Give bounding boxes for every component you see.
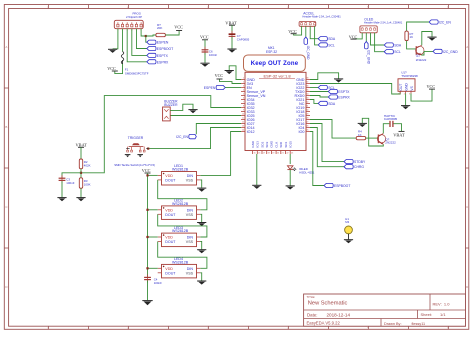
svg-text:Q3: Q3 (416, 54, 420, 58)
wire buzzer pin1 to ground (170, 104, 193, 110)
svg-text:ESPTX: ESPTX (157, 54, 169, 58)
svg-text:OUT: OUT (399, 84, 403, 91)
svg-text:IO13: IO13 (256, 141, 260, 148)
junction (LED1 VDD) (146, 174, 148, 176)
svg-text:DIN: DIN (187, 174, 194, 178)
wire Q? emitter to ground (362, 118, 383, 146)
svg-text:1K: 1K (358, 133, 362, 137)
VCC (fuse) (107, 66, 118, 71)
ground (LED1) (197, 188, 206, 192)
svg-text:4: 4 (243, 90, 244, 92)
svg-text:18: 18 (268, 152, 270, 154)
svg-text:VCC: VCC (288, 29, 297, 34)
svg-text:VBAT: VBAT (393, 132, 405, 137)
wire ESP IO12 to LED1 DIN (200, 132, 241, 176)
svg-text:VCC: VCC (349, 35, 358, 40)
net flag ESPRX (PROG) (147, 60, 169, 65)
wire LED3 VSS to ground (200, 242, 201, 250)
svg-text:TITLE:: TITLE: (307, 295, 316, 299)
svg-text:5: 5 (243, 94, 244, 96)
net flag ESPTX (PROG) (147, 53, 169, 58)
svg-text:VDD: VDD (165, 174, 173, 178)
svg-text:SCL: SCL (328, 43, 335, 47)
svg-text:B: B (466, 125, 468, 129)
svg-text:1: 1 (398, 93, 399, 95)
ground (R3) (76, 198, 85, 202)
VCC (C6 decoupling) (200, 35, 209, 40)
LED LED2 WS2812B (158, 199, 201, 220)
ground (C6) (200, 63, 209, 67)
wire ACCEL pin1 to VCC (294, 26, 302, 35)
capacitor HAPTIC CAP0805 (384, 114, 398, 127)
VCC (ACCEL) (288, 29, 297, 34)
ground (LED rail) (142, 301, 152, 306)
svg-text:flessy11: flessy11 (412, 322, 426, 326)
wire IRLED to ground (289, 170, 291, 186)
wire ESP RXD0 to ESPRX flag (310, 96, 328, 98)
svg-text:SDA: SDA (328, 102, 336, 106)
svg-text:2N2222: 2N2222 (385, 141, 396, 145)
svg-text:VCC: VCC (427, 84, 436, 89)
svg-text:9: 9 (243, 110, 244, 112)
wire LED4 VSS to ground (200, 273, 201, 281)
svg-text:2.54pitch 6P: 2.54pitch 6P (126, 15, 142, 19)
wire ESP GND to ground (229, 66, 241, 80)
svg-text:36: 36 (306, 86, 308, 88)
svg-text:100nF: 100nF (209, 53, 217, 57)
wire LED2 VSS to ground (200, 214, 201, 222)
svg-text:ESP-32 ver:1.8: ESP-32 ver:1.8 (263, 73, 291, 78)
svg-text:CAP0805: CAP0805 (237, 37, 250, 41)
wire H1 to ground (348, 234, 350, 240)
ground (PROG pin1) (108, 49, 117, 53)
junction (EN net) (145, 35, 147, 37)
svg-text:ESPBOOT: ESPBOOT (157, 47, 173, 51)
svg-text:Header-Male-2.54_1x4_C50481: Header-Male-2.54_1x4_C50481 (364, 21, 403, 25)
ground (LED4) (197, 281, 206, 285)
svg-text:ESPEN: ESPEN (157, 41, 169, 45)
net flag CHRG (344, 165, 364, 170)
svg-text:DOUT: DOUT (165, 271, 176, 275)
svg-text:SD0: SD0 (279, 141, 283, 147)
svg-text:33: 33 (306, 98, 308, 100)
wire Q? collector to haptic cap (383, 124, 389, 134)
wire ESP bottom GND to ground (256, 154, 258, 185)
svg-text:VCC: VCC (174, 25, 183, 30)
svg-text:TSOP38238: TSOP38238 (401, 74, 418, 78)
svg-text:16: 16 (258, 152, 260, 154)
wire ESP 3V3 to VCC (220, 79, 242, 83)
capacitor C3 100nF (59, 175, 75, 185)
wire OLED pin1 to VCC (354, 33, 363, 39)
resistor R3 100K (79, 178, 90, 189)
svg-text:REV: 1.0: REV: 1.0 (433, 302, 451, 307)
wire fuse F1 to VCC (115, 64, 123, 74)
wire buzzer to ESP IO25 (170, 115, 241, 117)
svg-text:Sheet:: Sheet: (421, 312, 433, 317)
wire ESPEN flag to EN pin (225, 87, 241, 89)
ground (U1) (401, 106, 410, 110)
svg-text:22: 22 (286, 152, 288, 154)
net flag ESPRX (ESP) (328, 95, 350, 100)
wire PROG pin5 to ESPBOOT (136, 29, 146, 49)
wire ACCEL pin3 to SDA flag (310, 26, 318, 38)
svg-text:VBAT: VBAT (76, 143, 88, 148)
net flag SDA (OLED) (384, 43, 402, 48)
module MK1 ESP-32 (241, 46, 310, 154)
svg-text:A: A (466, 45, 468, 49)
svg-text:Keep OUT Zone: Keep OUT Zone (251, 61, 299, 67)
title block (304, 294, 466, 326)
svg-text:3: 3 (409, 93, 410, 95)
net flag ESPTX (ESP) (328, 89, 350, 94)
connector ACCEL Header-Male-2.54_1x4_C50481 (299, 11, 341, 26)
net flag I2C_GND (ACCEL) (304, 37, 310, 60)
svg-text:VDD: VDD (165, 208, 173, 212)
svg-text:VSS: VSS (186, 240, 194, 244)
ground (ESP right GND) (334, 79, 343, 83)
svg-text:SD3: SD3 (265, 141, 269, 147)
net flag I2C_GND (Q3) (433, 49, 458, 54)
svg-text:New Schematic: New Schematic (308, 300, 348, 306)
svg-text:DIN: DIN (187, 236, 194, 240)
net flag ESPBOOT (PROG) (147, 46, 173, 51)
svg-text:GND: GND (404, 83, 408, 91)
wire ACCEL pin4 to SCL flag (315, 26, 319, 45)
svg-text:31: 31 (306, 106, 308, 108)
svg-text:2: 2 (404, 93, 405, 95)
IC U1? TSOP38238 (398, 71, 418, 96)
net flag SDA (ESP) (318, 101, 336, 106)
svg-text:ESPTX: ESPTX (338, 90, 350, 94)
wire ACCEL pin2 to I2C_GND flag (305, 26, 307, 37)
wire Q3 emitter to I2C_GND flag (421, 51, 433, 55)
svg-text:32: 32 (306, 102, 308, 104)
wire R7 to VCC (165, 31, 179, 35)
ground (trigger left) (125, 155, 131, 158)
ground (ESP bottom) (252, 185, 261, 189)
wire R6 to Q3 base (407, 41, 417, 49)
svg-text:VCC: VCC (142, 168, 151, 173)
svg-text:ESPRX: ESPRX (157, 60, 169, 64)
net flag STDBY (344, 160, 366, 165)
wire ESP IO23 to IR receiver OUT (310, 84, 400, 95)
svg-text:VSS: VSS (186, 213, 194, 217)
svg-text:I2C_EN: I2C_EN (439, 21, 451, 25)
connector PROG 2.54pitch 6P (114, 12, 143, 32)
svg-text:25: 25 (306, 130, 308, 132)
net flag I2C_GND (OLED) (365, 42, 371, 65)
svg-text:Drawn By:: Drawn By: (384, 322, 402, 326)
wire ESP TXD0 to ESPTX flag (310, 91, 328, 93)
junction (LED3 VDD) (146, 236, 148, 238)
svg-text:SMD Tactile Switch(4.2*6.2*3.5: SMD Tactile Switch(4.2*6.2*3.5) (114, 163, 155, 167)
svg-text:CLK: CLK (274, 142, 278, 148)
transistor Q3 2N2222 (416, 45, 427, 62)
net flag I2C_EN (top right) (429, 20, 451, 25)
svg-text:SCL: SCL (394, 50, 401, 54)
svg-text:VSS: VSS (186, 271, 194, 275)
svg-text:CMD: CMD (270, 140, 274, 148)
wire C4 to ground (147, 281, 149, 301)
svg-text:WS2812B: WS2812B (172, 261, 189, 265)
wire OLED pin4 to SCL flag (375, 33, 385, 52)
wire R3 to ground (80, 188, 82, 197)
svg-text:A: A (5, 45, 7, 49)
wire ESP IO4 to CHRG flag (310, 128, 344, 167)
capacitor C7 CAP0805 (229, 31, 250, 42)
svg-text:28: 28 (306, 118, 308, 120)
svg-text:12: 12 (242, 122, 244, 124)
mounting hole H1 M3 (345, 217, 353, 234)
net flag SCL (ACCEL) (318, 43, 335, 48)
wire trigger to ESP IO14 (148, 128, 241, 149)
wire LED3 DOUT to LED4 DIN (158, 242, 207, 269)
wire LED1 DOUT to LED2 DIN (158, 180, 207, 210)
wire junction to C3 (62, 173, 81, 178)
svg-text:I2C_GND: I2C_GND (443, 50, 458, 54)
svg-text:SDA: SDA (394, 44, 402, 48)
svg-text:27: 27 (306, 122, 308, 124)
svg-text:13: 13 (242, 126, 244, 128)
wire C7 to ground (231, 37, 233, 49)
svg-text:BUZZER: BUZZER (164, 103, 178, 107)
net flag ESPBOOT (ESP) (324, 183, 350, 188)
svg-text:ESPBOOT: ESPBOOT (334, 184, 350, 188)
svg-text:VSS: VSS (186, 179, 194, 183)
wire ESP IO17 to resistor R4 (310, 120, 356, 139)
svg-text:37: 37 (306, 82, 308, 84)
svg-text:19: 19 (272, 152, 274, 154)
svg-text:DIN: DIN (187, 267, 194, 271)
wire VCC rail to LED4 VDD (148, 267, 158, 269)
svg-text:EasyEDA V5.9.22: EasyEDA V5.9.22 (307, 321, 341, 326)
wire C3 to ground (61, 181, 63, 197)
svg-text:7: 7 (243, 102, 244, 104)
svg-text:100nF: 100nF (66, 181, 74, 185)
svg-text:WS2812B: WS2812B (172, 202, 189, 206)
svg-text:VDD: VDD (165, 236, 173, 240)
wire OLED pin2 to I2C_GND flag (365, 33, 367, 42)
svg-text:ESP-32: ESP-32 (266, 50, 277, 54)
svg-text:DOUT: DOUT (165, 179, 176, 183)
net flag SDA (ACCEL) (318, 37, 336, 42)
LED IRLED HSDL-4251 (287, 166, 314, 175)
svg-text:VCC: VCC (215, 73, 224, 78)
buzzer BUZZER (163, 100, 179, 121)
svg-text:WS2812B: WS2812B (172, 229, 189, 233)
svg-text:SDA: SDA (328, 37, 336, 41)
junction (LED2 VDD) (146, 209, 148, 211)
wire ESP IO15 to IRLED (289, 154, 291, 164)
svg-text:IO12: IO12 (247, 130, 255, 134)
svg-text:10: 10 (242, 114, 244, 116)
svg-text:100nF: 100nF (154, 281, 162, 285)
connector OLED Header-Male-2.54_1x4_C50481 (360, 17, 403, 33)
resistor R6 1K (405, 31, 414, 40)
svg-text:1: 1 (243, 78, 244, 80)
svg-text:Date:: Date: (307, 312, 318, 317)
svg-text:20: 20 (277, 152, 279, 154)
VBAT (haptic) (393, 131, 405, 137)
net flag I2C_EN (near ESP) (176, 134, 196, 139)
wire R4 to Q? base (366, 137, 378, 139)
fuse F1 SMD0603PC75TF (121, 52, 148, 76)
wire PROG pin4 to ESPTX (132, 29, 147, 56)
net flag ESPEN (PROG) (147, 40, 169, 45)
svg-text:SMD0603PC75TF: SMD0603PC75TF (125, 72, 149, 76)
svg-text:14: 14 (242, 130, 244, 132)
svg-text:VCC: VCC (107, 66, 116, 71)
wire U1 GND to ground (405, 94, 407, 106)
wire VCC rail to LED1 VDD (148, 174, 158, 176)
net flag SCL (ESP) (318, 85, 335, 90)
VCC (LED rail) (142, 168, 151, 173)
ground (Q? emitter) (358, 123, 367, 127)
svg-text:SD2: SD2 (260, 141, 264, 147)
VCC (OLED) (349, 35, 358, 40)
junction (trigger) (147, 148, 149, 150)
wire ESP IO21 to SDA flag (310, 100, 318, 104)
wire VCC rail to LED2 VDD (148, 209, 158, 211)
wire VCC rail (LED chain) (147, 173, 149, 277)
svg-text:2: 2 (243, 82, 244, 84)
wire ESP IO0 to ESPBOOT flag (310, 132, 324, 186)
svg-text:IO15: IO15 (289, 141, 293, 148)
net flag ESPEN (ESP EN pin) (204, 85, 226, 90)
junction (divider) (80, 172, 82, 174)
wire ESP IO22 to SCL flag (310, 87, 318, 89)
svg-text:CAP0805: CAP0805 (384, 117, 398, 121)
capacitor C6 100nF (202, 47, 218, 57)
LED LED3 WS2812B (158, 226, 201, 247)
svg-text:2N2222: 2N2222 (416, 58, 427, 62)
VCC (U1) (427, 84, 436, 89)
ground (C3) (57, 198, 66, 202)
wire junction to resistor R7 (146, 35, 156, 36)
svg-text:IO0: IO0 (298, 130, 304, 134)
svg-text:DIN: DIN (187, 208, 194, 212)
wire Q3 collector to ground (422, 32, 432, 46)
ground (H1) (344, 240, 353, 244)
wire I2C_EN flag to resistor R6 (407, 22, 429, 31)
net flag SCL (OLED) (384, 50, 401, 55)
svg-text:15: 15 (253, 152, 255, 154)
resistor R2 402K (79, 159, 90, 169)
resistor R7 20K (156, 23, 166, 37)
svg-text:30: 30 (306, 110, 308, 112)
VCC (R7 pullup) (174, 25, 183, 31)
ground (ESP left GND) (225, 71, 234, 75)
ground (C7) (227, 49, 236, 53)
wire VCC to C6 (204, 40, 206, 50)
wire PROG pin1 to ground (113, 29, 118, 49)
VBAT (divider) (76, 143, 88, 148)
ground (trigger right) (137, 155, 143, 158)
wire ESP right GND to ground (310, 73, 339, 80)
wire battery divider to ESP IO32 (81, 96, 241, 173)
wire LED2 DOUT to LED3 DIN (158, 214, 207, 237)
VCC (ESP 3V3) (215, 73, 224, 79)
svg-text:20K: 20K (157, 26, 162, 30)
svg-text:SD1: SD1 (284, 141, 288, 147)
svg-text:DOUT: DOUT (165, 240, 176, 244)
transistor Q? 2N2222 (haptic) (377, 133, 396, 144)
svg-text:26: 26 (306, 126, 308, 128)
svg-text:35: 35 (306, 90, 308, 92)
ground (LED2) (197, 223, 206, 227)
wire U1 VS to VCC (411, 89, 432, 101)
svg-text:ESPEN: ESPEN (204, 86, 216, 90)
svg-text:STDBY: STDBY (354, 160, 366, 164)
svg-text:VDD: VDD (165, 267, 173, 271)
svg-text:I2C_GND: I2C_GND (306, 46, 310, 61)
svg-text:21: 21 (282, 152, 284, 154)
VBAT (input cap) (225, 21, 237, 26)
wire PROG pin3 to ESPRX (127, 29, 147, 62)
wire VBAT to C7 (231, 25, 233, 33)
svg-text:ESPRX: ESPRX (338, 96, 350, 100)
ground (buzzer) (188, 110, 197, 114)
wire R2 to junction (80, 169, 82, 178)
wire OLED pin3 to SDA flag (371, 33, 385, 45)
wire LED1 VSS to ground (200, 180, 201, 188)
svg-text:TRIGGER: TRIGGER (128, 136, 144, 140)
svg-text:34: 34 (306, 94, 308, 96)
wire ESP IO16 to STDBY flag (310, 124, 344, 162)
wire PROG pin6 to node EN / junction (141, 29, 147, 43)
svg-text:I2C_EN: I2C_EN (176, 135, 188, 139)
svg-text:11: 11 (242, 118, 244, 120)
svg-text:1K: 1K (410, 35, 414, 39)
svg-text:VCC: VCC (200, 35, 209, 40)
svg-text:CHRG: CHRG (354, 165, 364, 169)
svg-text:29: 29 (306, 114, 308, 116)
svg-text:GND: GND (251, 140, 255, 148)
svg-text:402K: 402K (84, 164, 91, 168)
wire VBAT to R2 (80, 147, 82, 159)
svg-text:100K: 100K (84, 183, 91, 187)
switch TRIGGER SMD Tactile Switch(4.2*6.2*3.5) (114, 136, 155, 167)
svg-text:6: 6 (243, 98, 244, 100)
capacitor C4 100nF (144, 274, 162, 285)
svg-text:M3: M3 (345, 220, 349, 224)
svg-text:2018-12-14: 2018-12-14 (327, 312, 351, 317)
svg-text:8: 8 (243, 106, 244, 108)
wire I2C_EN flag to ESP IO27 (196, 124, 241, 135)
wire haptic cap to VBAT (394, 124, 402, 132)
ground (IRLED) (286, 186, 295, 190)
svg-text:1/1: 1/1 (440, 312, 446, 317)
svg-text:DOUT: DOUT (165, 213, 176, 217)
junction (LED4 VDD) (146, 267, 148, 269)
LED LED1 WS2812B (158, 164, 201, 185)
svg-text:HSDL-4251: HSDL-4251 (299, 171, 314, 175)
svg-text:3: 3 (243, 86, 244, 88)
resistor R4 1K (356, 130, 366, 140)
ground (Q3 collector) (427, 37, 436, 41)
svg-text:Header-Male-2.54_1x4_C50481: Header-Male-2.54_1x4_C50481 (302, 15, 341, 19)
svg-text:17: 17 (263, 152, 265, 154)
svg-text:23: 23 (291, 152, 293, 154)
svg-text:38: 38 (306, 78, 308, 80)
wire PROG pin2 to fuse F1 (122, 29, 124, 52)
svg-text:B: B (5, 125, 7, 129)
LED LED4 WS2812B (158, 257, 201, 278)
wire VCC rail to LED3 VDD (148, 236, 158, 238)
svg-text:I2C_GND: I2C_GND (367, 50, 371, 65)
ground (LED3) (197, 250, 206, 254)
